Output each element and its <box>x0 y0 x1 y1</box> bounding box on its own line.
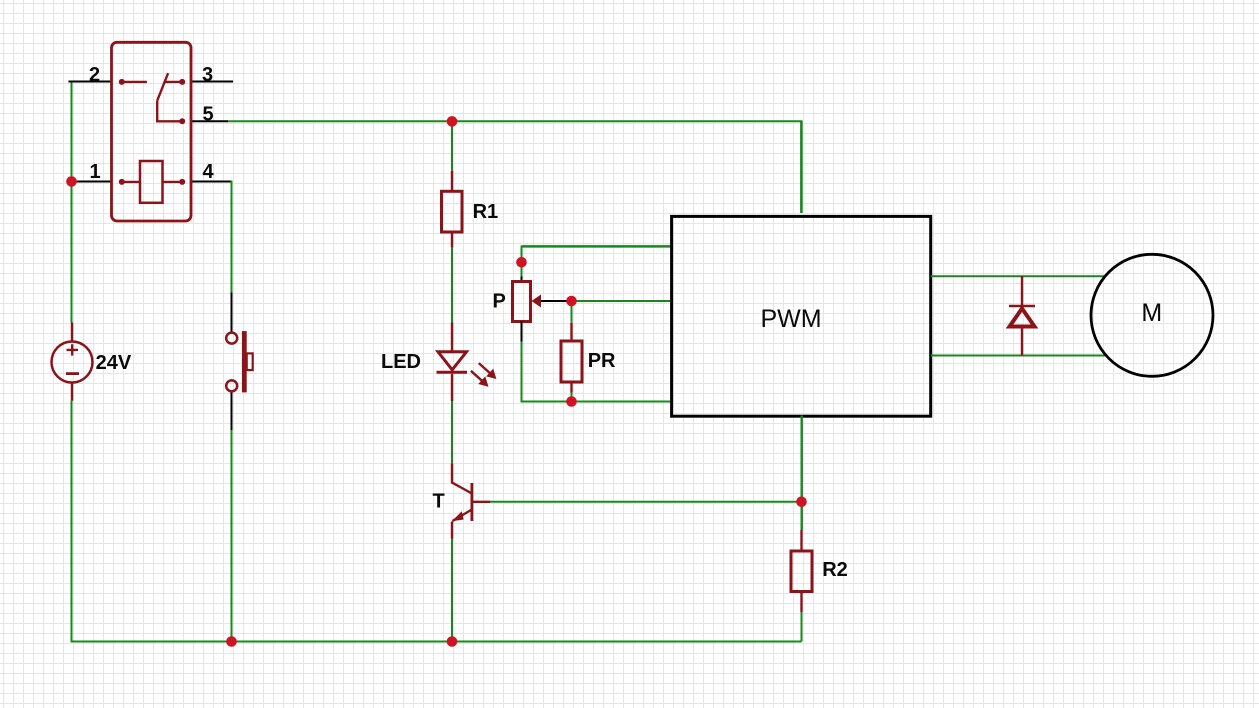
wire: P branch top corner green <box>521 246 523 277</box>
push button notch <box>247 353 253 370</box>
wire: button bottom green segment to bottom rail <box>231 430 233 641</box>
wire: PWM bottom pin green to base junction <box>801 416 803 502</box>
relay contact dot pin3 <box>179 79 185 85</box>
LED top lead <box>451 323 453 352</box>
wire: base green to R2 junction <box>490 501 802 503</box>
transistor T collector lead <box>452 463 472 493</box>
svg-text:PWM: PWM <box>760 305 821 333</box>
transistor T bar <box>470 483 473 521</box>
svg-text:PR: PR <box>588 350 616 372</box>
svg-text:R2: R2 <box>822 559 848 581</box>
transistor T base lead <box>472 501 490 503</box>
wire: PR top green segment <box>571 301 573 323</box>
svg-text:P: P <box>493 290 506 312</box>
wire: PR bottom green stub <box>571 393 573 402</box>
svg-text:1: 1 <box>89 161 100 183</box>
LED triangle <box>438 352 467 370</box>
wire: R2 bottom green to bottom rail <box>801 612 803 642</box>
relay K body rounded rect <box>112 42 192 221</box>
wire: button bottom black segment <box>231 392 233 430</box>
diode D flyback top lead <box>1021 276 1023 306</box>
wire: relay pin5 black stub <box>191 120 228 122</box>
transistor T emitter diagonal <box>453 510 472 522</box>
svg-text:M: M <box>1141 299 1162 327</box>
LED cathode bar <box>437 371 468 374</box>
wire: top rail green (pin5 to PWM top) <box>228 121 802 213</box>
push button top terminal circle <box>226 333 237 344</box>
junction dot wiper / PR top <box>566 296 577 307</box>
wire: R1 top green from junction <box>451 121 453 170</box>
resistor R2 body <box>791 551 812 592</box>
LED bottom lead <box>451 374 453 401</box>
relay contact line to pin3 dot <box>166 81 183 83</box>
resistor R1 leads <box>451 171 453 248</box>
wire: PWM right top green to motor <box>931 275 1105 277</box>
relay coil rectangle <box>140 161 163 203</box>
resistor R1 body <box>442 191 463 232</box>
wire: pin4 down green segment <box>231 181 233 293</box>
wire: R1 bottom green to LED <box>451 248 453 323</box>
junction dot above P <box>516 257 527 268</box>
diode D triangle outline <box>1010 309 1035 327</box>
push button bottom terminal circle <box>226 380 237 391</box>
svg-text:R1: R1 <box>473 201 499 223</box>
wire: top pot feed green to PWM <box>522 245 672 248</box>
svg-text:5: 5 <box>202 104 213 126</box>
junction dot base / R2 top <box>796 497 807 508</box>
resistor PR bottom lead <box>570 382 572 393</box>
wire: wiper junction green to PWM <box>572 300 672 302</box>
svg-text:4: 4 <box>202 161 214 183</box>
wire: relay pin4 black stub <box>191 181 232 183</box>
svg-text:LED: LED <box>381 351 421 373</box>
wire: pin4 down black segment to button <box>231 293 233 333</box>
relay blade to pin5 wire <box>157 101 182 122</box>
wire: P bottom green down and right <box>522 342 672 402</box>
relay switch blade <box>157 73 168 101</box>
relay coil dot left <box>119 179 125 185</box>
wire: PWM right bottom green to motor <box>931 355 1105 357</box>
wire: LED to transistor collector green <box>451 401 453 463</box>
relay coil dot right <box>179 179 185 185</box>
relay contact dot pin5 <box>179 118 185 124</box>
junction dot pin1/left rail <box>66 176 77 187</box>
wire: relay pin2 black stub <box>69 81 112 83</box>
voltage source plus sign <box>67 344 79 355</box>
motor M circle <box>1091 254 1213 376</box>
wire: left rail green vertical (24V source bottom to bottom rail) <box>71 401 73 642</box>
diode D bottom lead <box>1021 327 1023 356</box>
voltage source top lead <box>71 323 73 342</box>
resistor R2 top lead <box>800 530 802 551</box>
transistor T emitter lead <box>451 522 453 539</box>
relay contact line from pin2 dot <box>122 81 147 83</box>
junction dot bottom rail / button <box>226 636 237 647</box>
resistor PR top lead <box>570 323 572 341</box>
resistor PR body <box>561 341 582 382</box>
relay contact dot pin2 <box>119 79 125 85</box>
potentiometer P bottom lead black <box>521 322 523 342</box>
wire: relay pin3 black stub <box>191 81 233 83</box>
svg-text:T: T <box>433 491 445 513</box>
potentiometer P body <box>513 282 531 322</box>
svg-text:3: 3 <box>202 64 213 86</box>
LED emission arrow lower <box>471 371 488 386</box>
voltage source bottom lead <box>71 383 73 401</box>
wire: left rail green vertical (pin2 to 24V source top) <box>71 82 73 323</box>
relay coil right lead <box>163 181 183 183</box>
diode D cathode bar <box>1009 305 1035 308</box>
wire: bottom rail green horizontal <box>71 641 802 643</box>
transistor T emitter arrowhead <box>452 511 464 521</box>
wire: relay pin1 black stub <box>72 181 112 183</box>
junction dot bottom rail / emitter <box>447 636 458 647</box>
voltage source 24V circle <box>52 342 93 383</box>
wire: emitter green to bottom rail <box>451 539 453 642</box>
relay coil left lead <box>122 181 140 183</box>
voltage source minus sign <box>66 372 79 375</box>
potentiometer P top lead black <box>521 277 523 282</box>
potentiometer P wiper line black <box>541 300 572 302</box>
resistor R2 bottom lead <box>800 592 802 613</box>
svg-text:24V: 24V <box>96 352 132 374</box>
svg-text:2: 2 <box>89 64 100 86</box>
LED emission arrow upper <box>479 363 496 378</box>
junction dot PR bottom <box>566 396 577 407</box>
PWM block box <box>672 216 931 416</box>
push button actuator bar <box>242 331 247 392</box>
wire: R2 top green segment <box>801 502 803 530</box>
potentiometer P wiper arrowhead <box>532 295 542 308</box>
junction dot top rail / R1 <box>447 116 458 127</box>
